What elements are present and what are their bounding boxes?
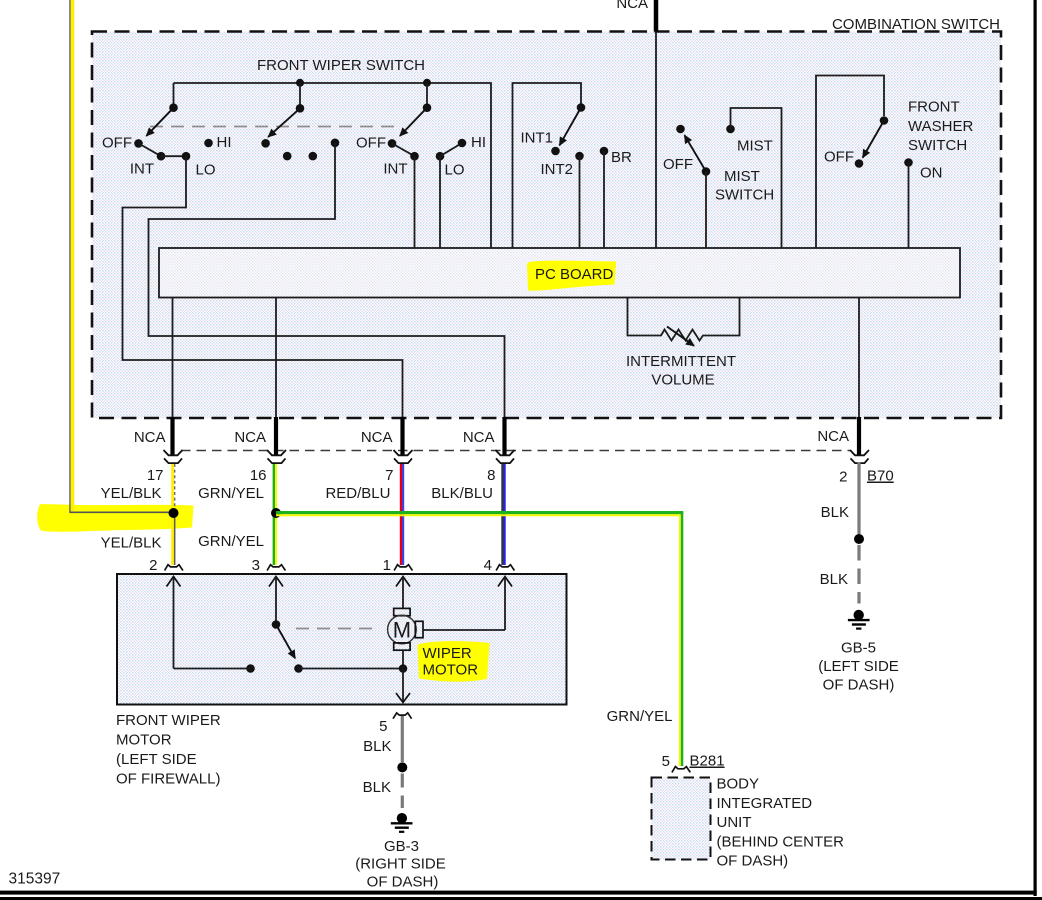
PC board highlight — [527, 261, 616, 291]
front washer switch — [816, 76, 973, 249]
svg-text:BLK: BLK — [820, 571, 848, 588]
svg-text:COMBINATION SWITCH: COMBINATION SWITCH — [832, 16, 1000, 33]
wiper switch 1 (OFF/INT/LO/HI) — [102, 83, 232, 179]
wire 8 BLK/BLU — [502, 464, 504, 565]
wire: switch3 LO to PC board — [439, 156, 441, 248]
wire: switch2 to connector 8 — [149, 143, 505, 417]
svg-text:FRONT WIPER: FRONT WIPER — [116, 712, 221, 729]
connector pin 8 (NCA above) — [431, 417, 514, 502]
svg-text:PC BOARD: PC BOARD — [535, 266, 614, 283]
mechanical coupling dashed link — [150, 126, 398, 128]
svg-text:7: 7 — [385, 467, 393, 484]
connector pin 16 (NCA above) — [198, 417, 286, 502]
connector pin 7 (NCA above) — [325, 417, 412, 502]
svg-text:NCA: NCA — [361, 429, 393, 446]
svg-text:LO: LO — [445, 162, 465, 179]
svg-text:INT2: INT2 — [540, 161, 573, 178]
PC board — [159, 248, 960, 298]
svg-text:GRN/YEL: GRN/YEL — [607, 708, 673, 725]
connector row dashed line — [181, 450, 850, 452]
window frame bottom — [0, 891, 1037, 895]
svg-text:MOTOR: MOTOR — [116, 732, 172, 749]
wire: PC board to connector 16 — [275, 298, 277, 417]
svg-text:5: 5 — [379, 718, 387, 735]
connector pin 17 (NCA above) — [101, 417, 183, 502]
motor pin 1 — [383, 557, 413, 609]
wiper switch 2 (unlabeled) — [261, 79, 339, 161]
svg-text:LO: LO — [196, 162, 216, 179]
window frame right — [1034, 0, 1037, 896]
svg-text:2: 2 — [149, 557, 157, 574]
mechanical link dashed (motor) — [296, 628, 376, 630]
motor internal park switch — [174, 620, 404, 673]
svg-text:(LEFT SIDE: (LEFT SIDE — [818, 658, 899, 675]
intermittent volume resistor — [626, 298, 740, 389]
svg-text:17: 17 — [147, 467, 164, 484]
svg-text:SWITCH: SWITCH — [715, 187, 774, 204]
wire 7 RED/BLU — [401, 464, 403, 565]
svg-text:RED/BLU: RED/BLU — [325, 485, 390, 502]
svg-text:OF DASH): OF DASH) — [367, 873, 439, 890]
svg-text:BLK: BLK — [363, 738, 391, 755]
svg-text:OF DASH): OF DASH) — [823, 676, 895, 693]
svg-text:(RIGHT SIDE: (RIGHT SIDE — [355, 856, 446, 873]
svg-text:B281: B281 — [690, 753, 725, 770]
park switch arm — [276, 625, 295, 659]
svg-text:BLK: BLK — [821, 504, 849, 521]
wire BLK to GB-3 — [363, 716, 408, 808]
motor pin 2 — [149, 557, 183, 669]
node BR — [600, 147, 632, 248]
svg-text:SWITCH: SWITCH — [908, 137, 967, 154]
svg-text:OFF: OFF — [356, 135, 386, 152]
wire: switch3 INT to PC board — [414, 156, 416, 248]
svg-text:INT1: INT1 — [520, 130, 553, 147]
ground GB-3 — [355, 813, 446, 890]
front wiper motor box — [117, 574, 567, 705]
svg-text:OF FIREWALL): OF FIREWALL) — [116, 771, 220, 788]
svg-text:NCA: NCA — [234, 429, 266, 446]
wire: motor to ground GB-3 — [396, 650, 410, 702]
svg-text:GB-5: GB-5 — [841, 639, 876, 656]
svg-text:(LEFT SIDE: (LEFT SIDE — [116, 751, 197, 768]
svg-text:YEL/BLK: YEL/BLK — [101, 485, 162, 502]
wire YEL/BLK jumper from top-left — [70, 0, 174, 513]
svg-text:2: 2 — [839, 469, 847, 486]
wire 16 GRN/YEL — [274, 464, 276, 565]
ground GB-5 — [818, 610, 899, 694]
intermittent switch INT1/INT2 — [513, 83, 586, 248]
wire: contact to motor node — [299, 668, 404, 670]
svg-text:BLK: BLK — [363, 779, 391, 796]
wiper switch 3 (OFF/INT/LO/HI) — [356, 79, 486, 179]
svg-text:NCA: NCA — [463, 429, 495, 446]
svg-text:MIST: MIST — [737, 138, 773, 155]
svg-text:NCA: NCA — [616, 0, 648, 12]
svg-text:16: 16 — [250, 467, 267, 484]
svg-text:UNIT: UNIT — [717, 814, 752, 831]
motor M symbol — [388, 608, 505, 650]
svg-text:HI: HI — [217, 134, 232, 151]
svg-text:FRONT WIPER SWITCH: FRONT WIPER SWITCH — [257, 57, 425, 74]
mist switch — [663, 108, 782, 248]
svg-text:1: 1 — [383, 557, 391, 574]
wire 17 YEL/BLK — [173, 464, 175, 565]
wiper motor highlight — [418, 641, 490, 682]
yellow highlight over jumper wire — [37, 504, 193, 532]
park switch contact node — [294, 664, 303, 673]
svg-text:WASHER: WASHER — [908, 118, 973, 135]
svg-text:MIST: MIST — [724, 168, 760, 185]
svg-text:HI: HI — [471, 134, 486, 151]
svg-text:INT: INT — [130, 161, 154, 178]
wire: PC board to connector 17 — [172, 298, 174, 417]
svg-text:3: 3 — [252, 557, 260, 574]
wire: switch bus — [174, 83, 492, 248]
wire BLK to GB-5 — [820, 462, 864, 604]
svg-text:GRN/YEL: GRN/YEL — [198, 485, 264, 502]
svg-text:315397: 315397 — [9, 871, 61, 888]
park switch pivot node — [272, 620, 281, 629]
svg-text:INTERMITTENT: INTERMITTENT — [626, 353, 736, 370]
svg-text:VOLUME: VOLUME — [651, 372, 714, 389]
park contact node (pin 2 side) — [246, 664, 255, 673]
junction node on wire 16 — [271, 508, 281, 518]
svg-text:WIPER: WIPER — [423, 645, 472, 662]
junction node on wire 17 — [169, 508, 179, 518]
svg-text:4: 4 — [484, 557, 492, 574]
svg-text:5: 5 — [662, 753, 670, 770]
svg-text:OFF: OFF — [824, 149, 854, 166]
svg-text:INTEGRATED: INTEGRATED — [717, 795, 813, 812]
bottom window edge — [0, 897, 1042, 900]
svg-text:OF DASH): OF DASH) — [717, 853, 789, 870]
svg-text:NCA: NCA — [134, 429, 166, 446]
wire GRN/YEL jumper to B281 — [276, 512, 683, 766]
svg-text:FRONT: FRONT — [908, 99, 960, 116]
svg-text:M: M — [393, 618, 411, 643]
wire: switch1 LO to connector 7 — [123, 156, 403, 417]
svg-text:MOTOR: MOTOR — [423, 662, 479, 679]
connector 5 B281 — [662, 753, 725, 773]
svg-text:GRN/YEL: GRN/YEL — [198, 533, 264, 550]
wire: PC board to connector B70 — [858, 298, 860, 417]
svg-text:ON: ON — [920, 165, 943, 182]
svg-text:BLK/BLU: BLK/BLU — [431, 485, 493, 502]
svg-text:OFF: OFF — [102, 135, 132, 152]
wire: NCA feed from top — [616, 0, 656, 248]
connector 5 below motor — [379, 713, 411, 735]
svg-text:YEL/BLK: YEL/BLK — [101, 535, 162, 552]
combination switch enclosure box — [92, 16, 1001, 418]
svg-text:BODY: BODY — [717, 776, 760, 793]
wire: pin 2 to park contact — [174, 668, 251, 670]
body integrated unit box — [652, 776, 845, 870]
svg-text:NCA: NCA — [817, 428, 849, 445]
svg-text:BR: BR — [611, 149, 632, 166]
svg-text:(BEHIND CENTER: (BEHIND CENTER — [717, 833, 845, 850]
svg-text:8: 8 — [487, 467, 495, 484]
svg-text:GB-3: GB-3 — [384, 838, 419, 855]
connector 2 B70 (NCA above) — [817, 417, 893, 486]
svg-text:INT: INT — [383, 161, 407, 178]
svg-text:B70: B70 — [867, 468, 894, 485]
motor pin 4 — [484, 557, 515, 630]
motor pin 3 — [252, 557, 286, 621]
svg-text:OFF: OFF — [663, 156, 693, 173]
